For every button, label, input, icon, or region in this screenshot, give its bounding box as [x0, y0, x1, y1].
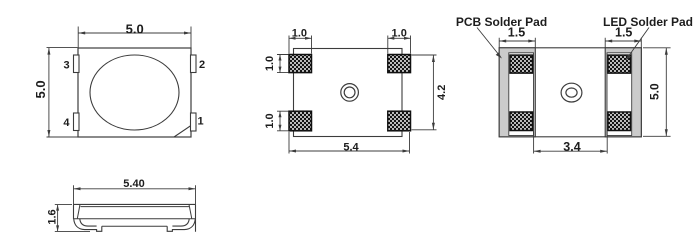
dim 1.5 left arrows [499, 40, 506, 43]
leader arrow PCB [496, 53, 502, 59]
dim 1.6 arrows [56, 205, 59, 211]
svg-text:1.5: 1.5 [508, 25, 525, 39]
svg-text:5.40: 5.40 [123, 178, 144, 190]
lens ellipse [90, 55, 179, 130]
dim 1.5 right dimension line [605, 40, 641, 42]
footprint center mark inner circle [344, 87, 355, 98]
led solder pad left-top (hatched) [510, 55, 533, 73]
dim 5.40 extension lines [74, 185, 196, 204]
side body left slant [77, 204, 80, 218]
svg-text:4: 4 [63, 117, 70, 129]
svg-text:5.0: 5.0 [126, 21, 144, 36]
footprint center mark outer circle [341, 84, 359, 102]
pcb outline rectangle [499, 48, 641, 137]
svg-text:4.2: 4.2 [436, 85, 448, 100]
dim 1.0 top-right extension lines [388, 36, 411, 54]
pad pin 2 [191, 55, 197, 73]
dim 1.0 left-lower arrows [279, 111, 282, 117]
led solder pad right-bottom (hatched) [608, 112, 631, 131]
dim 1.0 top-left dimension line [289, 37, 312, 39]
right lead outer [167, 219, 195, 232]
package body U1 top view [78, 48, 191, 137]
pcb solder pad right (gray) [605, 48, 641, 137]
right lead inner [172, 219, 189, 226]
dim 5.4 arrows [289, 150, 296, 153]
svg-text:5.4: 5.4 [343, 141, 359, 153]
dim 4.2 extension lines [412, 55, 437, 130]
dim 5.40 arrows [74, 187, 81, 190]
led pad window right (white) [607, 53, 632, 136]
dim 1.0 left-lower dimension line [279, 111, 281, 131]
dim 1.5 right extension lines [605, 38, 641, 48]
dim 5.0 top extension lines [78, 27, 191, 48]
dim 1.0 left-upper extension lines [277, 55, 289, 73]
dim 5.0 right extension lines [643, 48, 671, 137]
leader line LED [628, 28, 649, 58]
svg-text:5.0: 5.0 [33, 80, 48, 98]
dim 5.4 extension lines [289, 132, 410, 154]
svg-text:1.0: 1.0 [264, 113, 276, 128]
solder pads center mark outer circle [561, 83, 582, 102]
dim 1.5 left dimension line [499, 40, 535, 42]
svg-text:1.6: 1.6 [46, 209, 58, 224]
dim 1.0 top-left extension lines [289, 36, 312, 54]
dim 1.5 right arrows [605, 40, 612, 43]
led solder pad left-bottom (hatched) [510, 112, 533, 131]
svg-text:3: 3 [63, 60, 69, 72]
pin1 chamfer mark [174, 126, 191, 138]
dim 4.2 arrows [432, 55, 435, 62]
pad pin 3 [74, 55, 80, 73]
dim 1.0 top-left arrows [289, 37, 296, 40]
dim 3.4 dimension line [534, 150, 608, 152]
left lead inner [80, 219, 97, 226]
side body bottom line [74, 218, 196, 220]
svg-text:PCB Solder Pad: PCB Solder Pad [456, 15, 547, 29]
side bottom center line [102, 225, 167, 227]
pad pin 4 [74, 113, 80, 131]
dim 1.0 left-lower extension lines [277, 111, 289, 131]
pad pin 1 [191, 113, 197, 131]
dim 1.0 left-upper arrows [279, 55, 282, 61]
svg-text:2: 2 [199, 59, 205, 71]
footprint pad bottom-left [289, 111, 312, 131]
dim 5.0 right arrows [665, 48, 668, 55]
leader arrow LED [626, 54, 632, 60]
dim 5.0 left arrows [47, 48, 50, 55]
dim 1.0 top-right dimension line [388, 37, 411, 39]
led solder pad right-top (hatched) [608, 55, 631, 73]
svg-text:1.5: 1.5 [615, 25, 632, 39]
dim 5.0 top dimension line [78, 32, 191, 34]
dim 5.0 top arrows [78, 32, 85, 35]
dim 5.40 dimension line [74, 188, 196, 190]
dim 3.4 arrows [534, 150, 541, 153]
led pad window left (white) [509, 53, 534, 136]
solder pads center mark inner circle [566, 88, 577, 97]
dim 1.6 dimension line [57, 205, 59, 232]
dim 3.4 extension lines [534, 132, 608, 154]
footprint pad top-right [388, 55, 411, 73]
dim 5.4 dimension line [289, 150, 410, 152]
dim 1.0 top-right arrows [388, 37, 395, 40]
leader line PCB [477, 28, 500, 56]
side body outline [74, 204, 196, 231]
dim 5.0 left dimension line [48, 48, 50, 137]
footprint pad bottom-right [388, 111, 411, 131]
footprint package outline [294, 49, 403, 137]
footprint pad top-left [289, 55, 312, 73]
dim 5.0 left extension lines [47, 48, 78, 137]
dim 1.0 left-upper dimension line [279, 55, 281, 73]
svg-text:3.4: 3.4 [563, 140, 580, 154]
side body top face line [81, 206, 190, 208]
svg-text:5.0: 5.0 [648, 83, 662, 100]
dim 1.6 extension lines [55, 205, 90, 232]
dim 1.5 left extension lines [499, 38, 535, 48]
pcb solder pad left (gray) [499, 48, 535, 137]
svg-text:1.0: 1.0 [264, 56, 276, 71]
svg-text:1: 1 [197, 116, 203, 128]
dim 5.0 right dimension line [665, 48, 667, 137]
left lead outer [74, 219, 102, 232]
side body right slant [189, 204, 192, 218]
dim 4.2 dimension line [432, 55, 434, 130]
